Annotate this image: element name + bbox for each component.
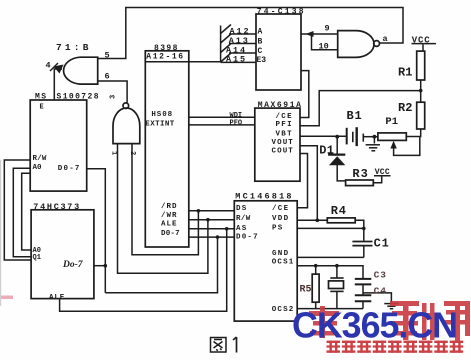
svg-text:4: 4 (46, 61, 51, 71)
svg-text:CK365.CN: CK365.CN (292, 305, 457, 346)
svg-text:R1: R1 (398, 66, 412, 80)
svg-text:74HC373: 74HC373 (33, 202, 81, 212)
svg-text:C1: C1 (374, 237, 390, 251)
svg-text:VCC: VCC (412, 36, 431, 46)
svg-text:MS: MS (35, 93, 47, 102)
svg-text:A13: A13 (229, 36, 250, 46)
svg-text:1: 1 (110, 151, 118, 155)
svg-text:R/W: R/W (33, 155, 47, 163)
svg-text:S100728: S100728 (57, 93, 100, 102)
svg-text:74-C138: 74-C138 (257, 8, 306, 17)
svg-text:PFO: PFO (230, 119, 243, 127)
svg-text:C: C (258, 47, 263, 56)
svg-text:OCS1: OCS1 (272, 258, 295, 266)
svg-text:/CE: /CE (276, 113, 293, 121)
svg-text:B: B (258, 37, 263, 46)
svg-text:MAX691A: MAX691A (258, 101, 303, 110)
svg-text:R/W: R/W (236, 215, 251, 223)
svg-text:A: A (258, 28, 263, 37)
svg-text:Q1: Q1 (33, 254, 41, 262)
svg-text:R2: R2 (398, 101, 412, 115)
svg-text:ALE: ALE (49, 294, 65, 302)
svg-text:D0-7: D0-7 (58, 165, 81, 173)
svg-text:PS: PS (272, 225, 284, 233)
svg-text:Do-7: Do-7 (62, 260, 84, 270)
svg-text:71:B: 71:B (56, 42, 92, 53)
svg-text:R4: R4 (331, 204, 347, 218)
svg-text:VOUT: VOUT (272, 139, 294, 147)
svg-text:A12-16: A12-16 (146, 52, 184, 61)
svg-text:C4: C4 (374, 286, 387, 297)
svg-text:PFI: PFI (276, 121, 293, 129)
svg-text:D1: D1 (319, 144, 334, 158)
svg-text:C3: C3 (374, 270, 387, 281)
svg-text:AS: AS (236, 225, 248, 233)
svg-text:A0: A0 (33, 164, 43, 172)
svg-text:COUT: COUT (272, 148, 294, 156)
svg-text:DS: DS (236, 205, 248, 213)
svg-text:A12: A12 (230, 26, 251, 36)
svg-text:6: 6 (105, 72, 110, 82)
svg-text:A15: A15 (226, 54, 247, 64)
svg-text:GND: GND (272, 250, 289, 258)
svg-text:VBT: VBT (276, 130, 293, 138)
svg-text:R5: R5 (300, 285, 312, 296)
svg-text:3: 3 (110, 95, 118, 99)
svg-text:R3: R3 (352, 167, 368, 181)
svg-text:/WR: /WR (161, 212, 178, 220)
svg-text:EXTINT: EXTINT (145, 120, 175, 128)
svg-text:5: 5 (105, 51, 110, 61)
svg-text:a: a (383, 34, 388, 44)
svg-text:E3: E3 (257, 56, 267, 65)
svg-text:/CE: /CE (272, 205, 289, 213)
svg-text:P1: P1 (385, 116, 398, 128)
svg-text:10: 10 (319, 42, 329, 52)
svg-text:2: 2 (128, 151, 136, 155)
svg-text:D0-7: D0-7 (161, 230, 180, 238)
svg-text:9: 9 (325, 24, 330, 34)
svg-text:D0-7: D0-7 (236, 233, 259, 241)
svg-text:ALE: ALE (161, 221, 178, 229)
svg-text:MC146818: MC146818 (235, 192, 293, 202)
svg-text:VDD: VDD (272, 215, 289, 223)
svg-text:B1: B1 (347, 109, 363, 123)
svg-text:VCC: VCC (375, 168, 390, 177)
svg-text:E: E (40, 104, 44, 112)
svg-text:/RD: /RD (161, 203, 178, 211)
svg-text:HS08: HS08 (151, 111, 173, 119)
